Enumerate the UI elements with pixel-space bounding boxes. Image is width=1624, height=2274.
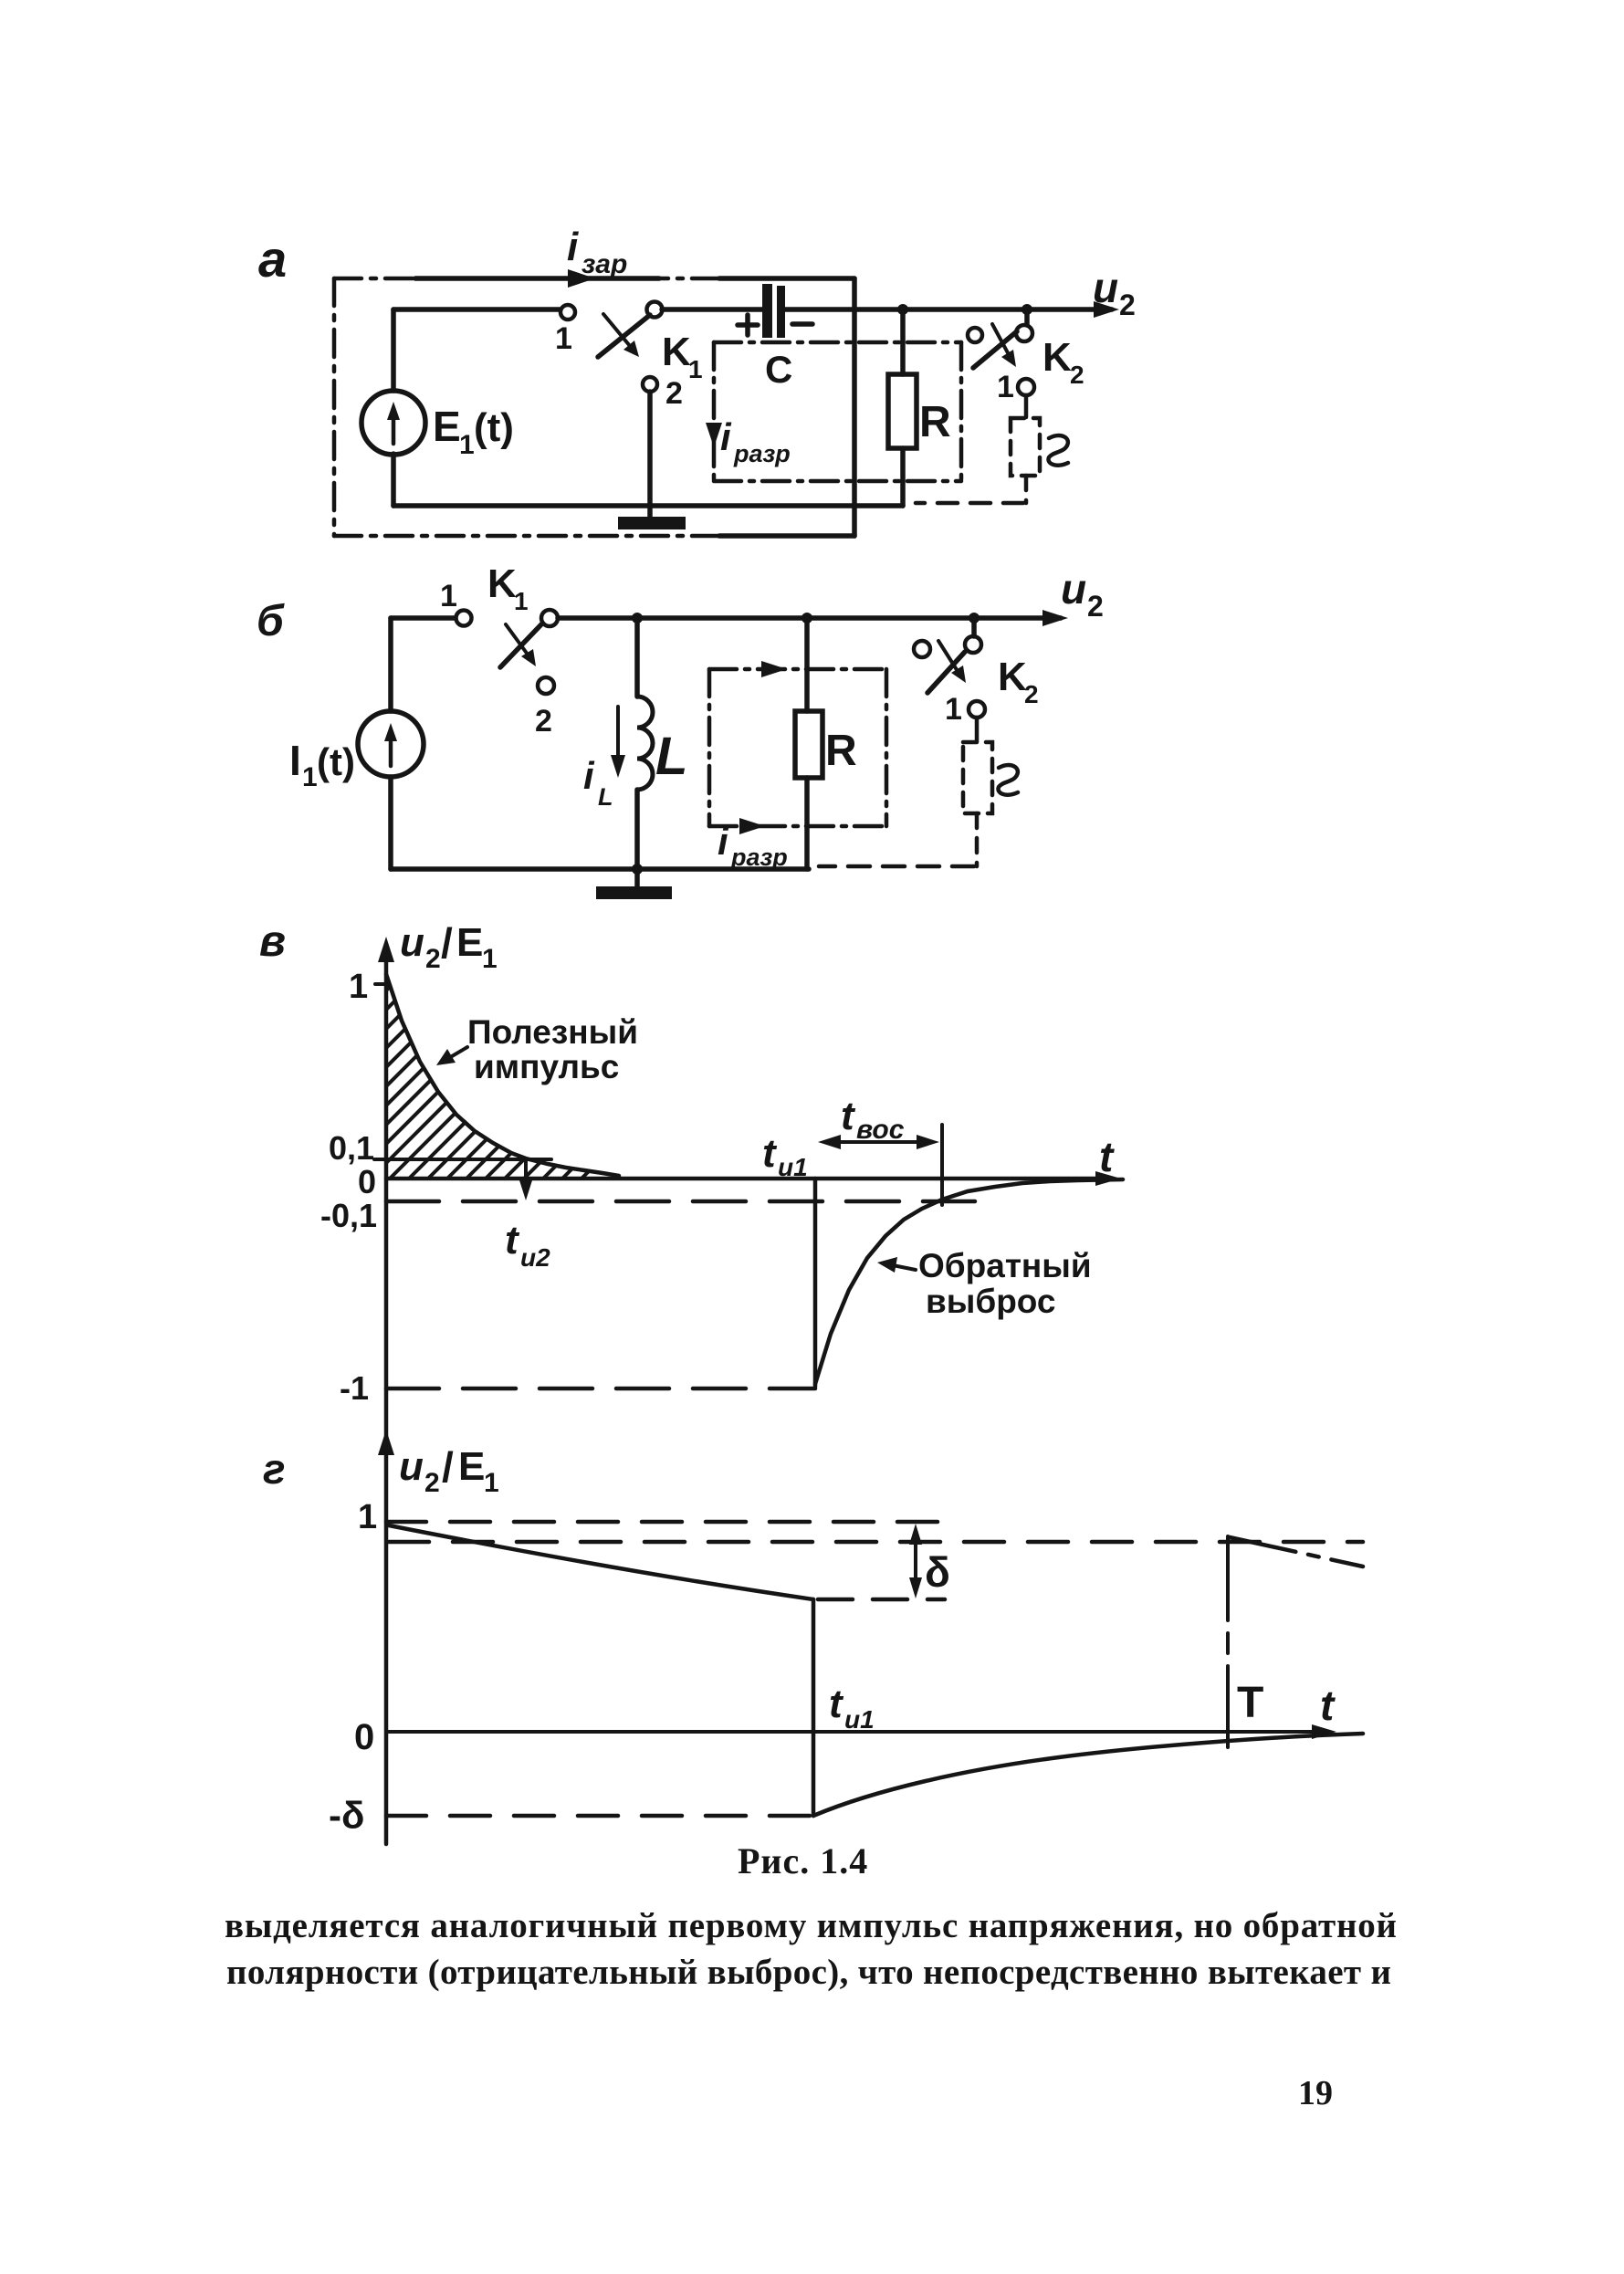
switch K1 blade: [500, 624, 541, 667]
level -1 dash line: [386, 1387, 815, 1391]
svg-text:u: u: [1061, 565, 1086, 613]
discharge loop dash-dot box: [709, 669, 886, 826]
wire source top: [388, 618, 393, 711]
svg-text:K: K: [662, 330, 691, 374]
inductor L: [634, 618, 640, 697]
svg-text:1: 1: [945, 692, 962, 727]
svg-text:19: 19: [1298, 2074, 1333, 2112]
switch K2: [1024, 309, 1030, 325]
recovery curve (reverse overshoot): [815, 1179, 1123, 1384]
svg-text:2: 2: [1087, 590, 1104, 623]
wire terminal2 to ground: [647, 392, 653, 517]
svg-text:u: u: [400, 920, 424, 965]
recovery curve after t_i1: [813, 1734, 1363, 1816]
svg-text:2: 2: [1070, 361, 1084, 389]
arrow to recovery curve: [893, 1265, 916, 1270]
svg-text:T: T: [1237, 1679, 1263, 1727]
svg-text:разр: разр: [730, 844, 788, 871]
label useful pulse: [467, 1013, 638, 1085]
node R junction: [802, 613, 812, 624]
svg-text:полярности (отрицательный выбр: полярности (отрицательный выброс), что н…: [226, 1953, 1391, 1992]
label Z: [999, 765, 1018, 795]
t axis: [386, 1730, 1325, 1734]
discharge loop dash-dot box: [714, 342, 961, 481]
svg-text:и2: и2: [520, 1243, 550, 1272]
svg-text:t: t: [505, 1218, 520, 1263]
capacitor C plates: [762, 284, 772, 338]
level -delta dashed line: [386, 1814, 813, 1818]
svg-text:K: K: [487, 561, 517, 606]
arrow on discharge box bottom: [739, 818, 765, 834]
svg-text:1: 1: [358, 1498, 377, 1536]
resistor R: [795, 711, 822, 778]
svg-text:t: t: [829, 1682, 844, 1726]
svg-text:L: L: [598, 783, 613, 811]
svg-text:-1: -1: [340, 1369, 369, 1407]
enclosure dash-dot box (pulse generator, circuit a): [334, 278, 719, 536]
bottom wire: [388, 777, 393, 869]
svg-text:t: t: [1099, 1133, 1115, 1180]
node ground junction: [632, 864, 643, 875]
svg-text:и1: и1: [844, 1705, 875, 1734]
svg-text:0,1: 0,1: [329, 1129, 374, 1167]
svg-text:i: i: [718, 820, 729, 863]
svg-text:i: i: [720, 415, 732, 458]
svg-text:2: 2: [665, 376, 683, 411]
svg-text:импульс: импульс: [474, 1048, 619, 1085]
svg-text:δ: δ: [925, 1548, 950, 1596]
svg-text:/: /: [441, 919, 453, 967]
label reverse overshoot: [918, 1247, 1092, 1320]
level 0.1 line: [374, 1158, 551, 1161]
svg-text:зар: зар: [581, 249, 627, 279]
t_voc dimension: [940, 1125, 944, 1205]
svg-text:разр: разр: [733, 440, 791, 467]
svg-text:C: C: [765, 348, 792, 391]
svg-text:E: E: [456, 920, 483, 965]
axis label u2/E1: [399, 1443, 499, 1498]
current label i_zar with arrow: [415, 276, 659, 281]
svg-text:(t): (t): [317, 740, 355, 783]
svg-text:u: u: [399, 1444, 424, 1489]
svg-text:выброс: выброс: [926, 1283, 1056, 1320]
svg-text:t: t: [1320, 1682, 1336, 1729]
svg-text:вос: вос: [856, 1115, 905, 1145]
svg-text:0: 0: [354, 1717, 374, 1757]
svg-text:1: 1: [440, 579, 457, 613]
svg-text:2: 2: [425, 944, 441, 974]
second pulse droop after T: [1230, 1537, 1363, 1567]
y axis: [384, 946, 389, 1453]
svg-text:1: 1: [484, 1468, 499, 1498]
delta dimension arrow: [914, 1532, 917, 1590]
svg-text:1: 1: [997, 370, 1014, 404]
svg-text:R: R: [919, 398, 951, 446]
svg-text:б: б: [257, 597, 285, 645]
svg-text:1: 1: [514, 587, 529, 615]
svg-text:1: 1: [459, 430, 475, 460]
useful pulse curve: [386, 974, 619, 1176]
svg-text:(t): (t): [474, 405, 514, 450]
node L junction: [632, 613, 643, 624]
svg-text:-δ: -δ: [329, 1794, 364, 1837]
current label i_L with arrow: [616, 707, 620, 767]
arrow to pulse curve: [447, 1047, 467, 1059]
second dashed level line: [389, 1540, 1363, 1545]
svg-text:L: L: [655, 727, 687, 786]
svg-text:1: 1: [302, 762, 318, 792]
ground: [618, 517, 686, 529]
droop line: [389, 1525, 813, 1599]
svg-text:Полезный: Полезный: [467, 1013, 638, 1051]
svg-text:в: в: [259, 917, 286, 966]
switch K1 terminal 1: [561, 305, 575, 320]
svg-text:t: t: [762, 1131, 778, 1176]
svg-text:Рис. 1.4: Рис. 1.4: [738, 1840, 868, 1881]
svg-text:u: u: [1093, 264, 1118, 311]
svg-text:K: K: [998, 655, 1027, 699]
svg-text:I: I: [289, 737, 301, 784]
svg-text:1: 1: [349, 968, 368, 1006]
top wire to output: [558, 615, 1061, 621]
node R-top junction: [897, 304, 908, 315]
bottom wire: [391, 454, 396, 506]
svg-text:выделяется аналогичный первому: выделяется аналогичный первому импульс н…: [225, 1906, 1397, 1945]
node K2 junction: [969, 613, 980, 624]
switch K1 terminal 2: [643, 377, 657, 392]
node K2 junction: [1022, 304, 1032, 315]
label Z: [1049, 435, 1068, 466]
svg-text:K: K: [1043, 335, 1072, 380]
t_i1 vertical line: [813, 1179, 818, 1387]
dashed return wire Z: [1024, 476, 1029, 503]
t_i1 vertical line: [812, 1599, 816, 1816]
wire capacitor to output: [785, 307, 1112, 312]
t_i2 marker: [524, 1159, 528, 1192]
svg-text:i: i: [567, 225, 579, 269]
svg-text:E: E: [433, 403, 461, 450]
switch K1 terminal 1: [456, 611, 472, 626]
svg-text:-0,1: -0,1: [320, 1197, 377, 1234]
svg-text:R: R: [825, 727, 857, 775]
t axis: [386, 1177, 1112, 1181]
output arrow u2: [1094, 301, 1119, 318]
svg-text:1: 1: [555, 321, 572, 356]
switch K2: [971, 618, 977, 636]
switch K1 blade: [598, 315, 650, 357]
svg-text:2: 2: [1119, 288, 1136, 321]
svg-text:i: i: [583, 754, 595, 797]
svg-text:1: 1: [482, 944, 498, 974]
svg-text:/: /: [442, 1443, 454, 1491]
svg-text:г: г: [263, 1445, 286, 1493]
impedance Z dashed box: [1011, 418, 1040, 476]
axis label u2/E1: [400, 919, 498, 974]
source E1(t): [361, 391, 425, 455]
plus sign: [738, 322, 758, 328]
resistor R: [888, 374, 917, 448]
minus sign: [792, 321, 812, 327]
current source I1(t): [358, 711, 424, 777]
dashed droop level: [818, 1598, 945, 1602]
output arrow u2: [1043, 610, 1068, 626]
impedance Z dashed box: [963, 742, 992, 813]
svg-text:2: 2: [424, 1468, 440, 1498]
wire E1 top: [391, 309, 396, 391]
svg-text:a: a: [258, 230, 287, 288]
svg-text:и1: и1: [778, 1153, 808, 1181]
solid box right portion (charging loop, circuit a): [719, 276, 854, 281]
svg-text:1: 1: [688, 355, 703, 383]
svg-text:2: 2: [535, 704, 552, 739]
svg-text:Обратный: Обратный: [918, 1247, 1092, 1284]
svg-text:t: t: [841, 1094, 856, 1138]
svg-text:2: 2: [1024, 680, 1039, 708]
arrow on discharge box top: [761, 661, 787, 677]
svg-text:0: 0: [358, 1163, 376, 1200]
y axis: [384, 1439, 389, 1844]
wire K2 to Z: [975, 718, 980, 741]
dashed return wire Z: [975, 813, 980, 866]
wire K1 to capacitor: [662, 307, 762, 312]
switch K1 terminal 2: [538, 677, 554, 694]
level 1 dashed line: [386, 1520, 945, 1525]
ground: [634, 869, 640, 886]
level -0.1 dash line: [386, 1200, 975, 1204]
svg-text:E: E: [458, 1444, 485, 1489]
wire K2 to Z: [1024, 395, 1029, 417]
current label i_razr with arrow: [706, 423, 722, 447]
